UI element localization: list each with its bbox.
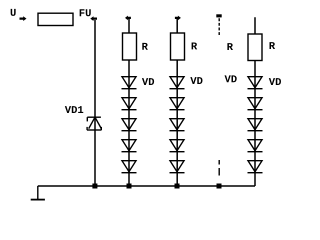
node: junction of column 1 and bus xyxy=(127,184,132,189)
LED chain column 2: diode 2 xyxy=(170,98,185,110)
LED chain column 2: diode 1 xyxy=(170,77,185,89)
wire: column 2 vertical xyxy=(176,18,178,186)
label VD (column 1) xyxy=(142,78,154,85)
wire: column 4 vertical xyxy=(254,17,256,186)
wire: column 1 vertical xyxy=(128,18,130,186)
arrow at top of column 2 (points right) xyxy=(175,16,181,21)
wire: main vertical from FU node to bottom bus xyxy=(94,20,96,186)
dashed wire: omitted column top xyxy=(218,18,220,36)
LED chain column 4: diode 3 xyxy=(248,119,263,131)
arrow at FU node (points left) xyxy=(90,16,97,21)
resistor R (column 2) xyxy=(171,33,185,60)
LED chain column 4: diode 2 xyxy=(248,98,263,110)
label U (input voltage) xyxy=(11,9,16,16)
LED chain column 1: diode 5 xyxy=(122,161,137,173)
arrow: U input arrow (points right) xyxy=(20,16,27,21)
LED chain column 1: diode 2 xyxy=(122,98,137,110)
terminal tick at top of omitted column xyxy=(216,14,221,17)
LED chain column 1: diode 1 xyxy=(122,77,137,89)
label R (column 1) xyxy=(142,43,148,50)
label R (column 4) xyxy=(270,42,276,49)
label R (column 2) xyxy=(192,42,198,49)
LED chain column 2: diode 5 xyxy=(170,161,185,173)
arrow at top of column 1 (points left) xyxy=(125,16,131,21)
label FU xyxy=(80,9,91,16)
resistor R (column 1) xyxy=(123,33,137,60)
LED chain column 4: diode 5 xyxy=(248,161,263,173)
LED chain column 4: diode 1 xyxy=(248,77,263,89)
node: junction of column 2 and bus xyxy=(175,184,180,189)
LED chain column 4: diode 4 xyxy=(248,140,263,152)
label VD (column 2) xyxy=(190,77,202,84)
zener diode VD1 xyxy=(87,117,102,130)
fuse FU xyxy=(38,13,73,25)
LED chain column 1: diode 3 xyxy=(122,119,137,131)
dashed wire: omitted column bottom xyxy=(218,160,220,165)
label VD1 xyxy=(65,106,83,113)
node: junction of omitted column and bus xyxy=(217,184,222,189)
label VD (column 4) xyxy=(269,78,281,85)
LED chain column 1: diode 4 xyxy=(122,140,137,152)
label VD (omitted column) xyxy=(225,75,237,82)
node: junction of VD1 branch and bus xyxy=(92,184,97,189)
ground xyxy=(31,186,45,200)
resistor R (column 4) xyxy=(248,34,262,61)
LED chain column 2: diode 3 xyxy=(170,119,185,131)
label R (omitted column) xyxy=(227,43,233,50)
LED chain column 2: diode 4 xyxy=(170,140,185,152)
wire: bottom bus xyxy=(38,185,255,187)
